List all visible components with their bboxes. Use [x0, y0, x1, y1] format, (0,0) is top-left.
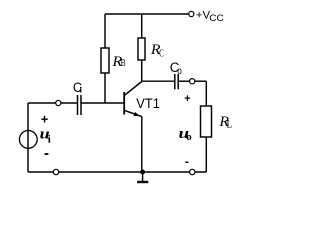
svg-text:CC: CC — [209, 14, 224, 24]
svg-text:o: o — [177, 64, 182, 76]
svg-text:+: + — [41, 112, 49, 127]
svg-text:o: o — [186, 131, 192, 143]
svg-text:C: C — [159, 47, 164, 59]
svg-text:VT1: VT1 — [136, 95, 160, 111]
svg-text:+: + — [184, 93, 190, 105]
svg-text:B: B — [121, 57, 126, 68]
svg-text:L: L — [227, 119, 233, 131]
svg-text:i: i — [48, 134, 51, 146]
